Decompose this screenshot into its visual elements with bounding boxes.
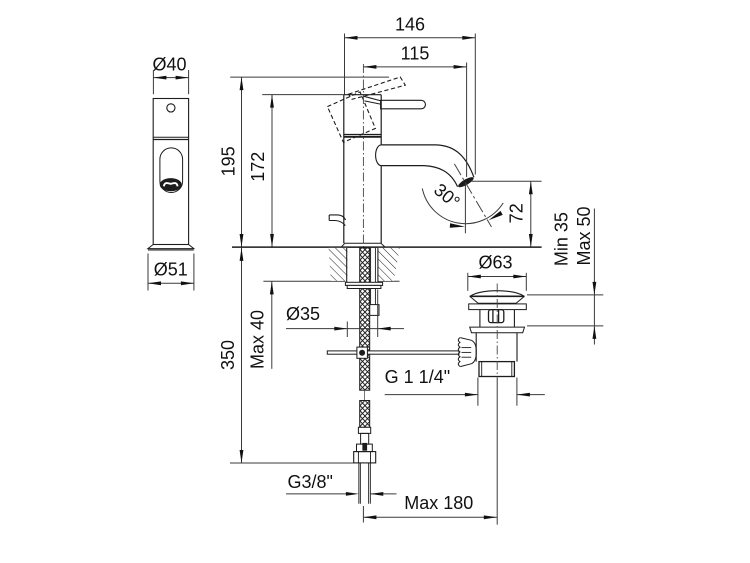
dim label 115 (401, 44, 430, 64)
svg-text:172: 172 (248, 152, 268, 182)
dim Min35/Max50 line (593, 209, 597, 345)
front view Ø51 dimension line (148, 281, 194, 285)
countertop bottom line left (263, 280, 345, 282)
side view spout outlet (457, 175, 475, 189)
dim label Max 180 (404, 493, 473, 513)
side view raised handle grip (dashed) (327, 92, 375, 142)
drain lower flange (470, 327, 525, 333)
angle label 30° (430, 179, 464, 212)
dim 146 line (345, 36, 476, 40)
dim 350 bottom reference line (230, 462, 354, 464)
svg-text:G 1 1/4": G 1 1/4" (385, 367, 450, 387)
front view spout capsule (160, 148, 183, 193)
svg-text:Max 180: Max 180 (404, 493, 473, 513)
svg-text:G3/8": G3/8" (287, 472, 332, 492)
dim 115 line (363, 65, 466, 69)
drain body (476, 333, 517, 362)
dim Max 180 extension line left (362, 506, 364, 523)
dim label 195 (219, 146, 239, 176)
svg-text:Ø35: Ø35 (286, 304, 320, 324)
front view faucet body (153, 99, 188, 245)
dim 195 line (240, 77, 244, 247)
angle 30° outlet axis (dash-dot) (454, 164, 491, 227)
dim 350 line (240, 248, 244, 463)
svg-text:72: 72 (507, 203, 527, 223)
side view centerline (362, 64, 364, 247)
dim Max 40 line (270, 281, 274, 368)
pull rod tube nut (370, 305, 379, 316)
drain knob (458, 338, 476, 367)
dim Ø63 line (468, 275, 527, 279)
dim 115 extension line right (466, 63, 468, 178)
front view body seam (153, 137, 188, 139)
drain ribbed lock (489, 310, 504, 323)
dim label Ø63 (478, 253, 512, 273)
dim Ø35 line (286, 327, 404, 331)
hose tail pipe (359, 463, 370, 504)
front view Ø40 extension lines (153, 70, 188, 94)
svg-text:115: 115 (401, 44, 430, 64)
drain cap flange (470, 296, 525, 303)
side view faucet body (344, 95, 381, 244)
side view base flare (341, 243, 385, 247)
pop-up rod pivot block (357, 347, 368, 358)
dim label 146 (395, 14, 425, 34)
dim 172 top extension line (262, 94, 344, 96)
drain centerline (496, 284, 498, 525)
dim Ø35 extension lines (347, 290, 377, 338)
hose end tube (361, 433, 369, 450)
side view handle neck (364, 96, 382, 104)
side view handle lever (381, 100, 426, 109)
dim label Max 40 (248, 310, 268, 369)
pop-up rod (327, 351, 459, 354)
hose gap centerline (364, 390, 366, 400)
front view handle pin hole (167, 104, 175, 112)
dim 72 line (529, 181, 533, 247)
flexible hose upper braid (360, 248, 370, 390)
flexible hose lower braid (360, 401, 370, 428)
dim label G3/8" (287, 472, 332, 492)
dim label Max 50 (574, 206, 594, 265)
dim 72 top extension line (471, 180, 542, 182)
drain spool (480, 310, 515, 328)
front view dim label Ø40 (152, 55, 186, 75)
svg-text:350: 350 (218, 340, 238, 370)
side view spout (376, 145, 474, 187)
front view Ø40 dimension line (153, 76, 188, 80)
countertop hatching left (329, 248, 348, 281)
dim label 350 (218, 340, 238, 370)
dim G3/8 line (286, 492, 396, 496)
svg-text:Min 35: Min 35 (551, 212, 571, 266)
svg-text:Ø40: Ø40 (152, 55, 186, 75)
dim Ø63 extension lines (468, 273, 527, 291)
front view Ø51 extension lines (148, 254, 194, 291)
countertop surface line (232, 246, 542, 248)
G3/8 hex nut (354, 452, 376, 463)
countertop hatching right (378, 248, 400, 281)
angle 30° vertical reference (464, 184, 466, 233)
front view aerator outlet (160, 178, 182, 191)
dim label 172 (248, 152, 268, 182)
hose nut washer (357, 444, 373, 452)
svg-text:Ø51: Ø51 (154, 259, 188, 279)
hose crimp collar (358, 427, 370, 433)
countertop bottom line right (378, 280, 400, 282)
dim G 1 1/4 line (385, 393, 545, 397)
front view base flare (148, 245, 194, 250)
dim 172 line (270, 95, 274, 247)
side view body seam (344, 134, 381, 136)
svg-text:146: 146 (395, 14, 425, 34)
dim label Min 35 (551, 212, 571, 266)
dim 146 extension lines (345, 34, 476, 175)
dim label 72 (507, 203, 527, 223)
angle 30° arc (422, 189, 503, 228)
svg-text:Max 50: Max 50 (574, 206, 594, 265)
dim label G 1 1/4" (385, 367, 450, 387)
dim 195 top extension line (230, 76, 389, 78)
side view pop-up rod knob (329, 215, 345, 226)
svg-text:Ø63: Ø63 (478, 253, 512, 273)
mounting washer (345, 282, 382, 288)
drain tail collar (479, 362, 514, 377)
side view raised lever (dashed) (349, 77, 406, 99)
dim G 1 1/4 extension lines (478, 378, 517, 406)
pull rod tube (371, 248, 376, 305)
svg-text:Max 40: Max 40 (248, 310, 268, 369)
drain cap dome (470, 291, 524, 297)
front view dim label Ø51 (154, 259, 188, 279)
min-max reference lines (527, 295, 603, 326)
dim Max 180 line (363, 515, 496, 519)
threaded shank (347, 248, 378, 282)
drain upper flange band (469, 304, 527, 310)
svg-text:195: 195 (219, 146, 239, 176)
dim label Ø35 (286, 304, 320, 324)
